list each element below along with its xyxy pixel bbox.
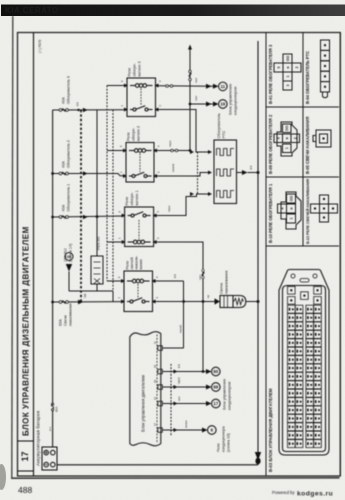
wire to circle 19	[189, 48, 213, 151]
B-03 terminal arrow	[255, 452, 261, 461]
fusible link box 30A	[91, 256, 103, 284]
battery	[42, 447, 57, 470]
glow plug Свеча накаливания	[220, 296, 246, 308]
ECU connector B-03 outline	[279, 270, 329, 456]
PTC heater box	[214, 140, 237, 204]
fuse row 40A Обогреватель 3	[53, 109, 127, 112]
dashed harness bus x83	[80, 110, 82, 302]
wire R3 coil to circle 11	[159, 85, 214, 87]
R3 pin arrows	[124, 84, 159, 112]
dashed connector column x107	[106, 86, 108, 282]
corner smudge	[0, 464, 6, 490]
node circle 11	[219, 82, 228, 91]
relay R3 Реле обогревателя 3	[127, 78, 156, 117]
connector B-09 pinout	[274, 122, 300, 156]
wire 15A INJ to link box	[69, 272, 113, 302]
bus x258 to B-03	[257, 41, 259, 465]
connector B-04 pinout strip	[321, 40, 330, 98]
wire R1 switch to PTC row3	[157, 194, 208, 216]
connector B-22 pinout	[311, 195, 338, 222]
PTC output to bus	[237, 172, 243, 174]
title box БЛОК УПРАВЛЕНИЯ ДИЗЕЛЬНЫМ ДВИГАТЕЛЕМ	[18, 440, 34, 442]
relay pin numbers	[120, 80, 162, 107]
wire RG coil to down-tap	[156, 280, 184, 282]
connector B-05 pinout	[313, 130, 331, 147]
wire R3 switch to PTC row1	[159, 110, 209, 153]
title column divider	[33, 33, 35, 477]
node circle 19	[219, 100, 228, 109]
ECU wire to circle 17	[162, 403, 206, 405]
wire R2 coil to x192 node	[157, 149, 190, 151]
connector B-01 pinout	[274, 54, 301, 90]
ECU pins	[158, 346, 163, 433]
wire battery bottom to B-03 bus	[57, 464, 258, 466]
ECU box Блок управления двигателем	[130, 332, 161, 446]
fuse row 40A Обогреватель 2	[53, 172, 126, 176]
ECU wire to circle 69	[162, 386, 206, 388]
relay R2 Реле обогревателя 2	[126, 143, 154, 183]
wire R2 switch to PTC row2	[157, 173, 208, 177]
page tab 17	[18, 470, 34, 472]
wire battery positive bus	[52, 110, 54, 447]
fuse row 40A Обогреватель 1	[53, 216, 125, 219]
wire R1 coil down to circle 60 wire	[157, 242, 203, 372]
wire RG switch to glow plug	[156, 301, 215, 303]
ECU pin grid	[288, 287, 322, 448]
dashed connector column at ECU outputs	[170, 364, 172, 436]
dashed connector column x113	[112, 110, 114, 302]
ECU wire to circle 60	[162, 371, 206, 373]
ECU wire to glow tap	[162, 347, 183, 349]
fuse row 60A Свечи накаливания	[53, 301, 124, 304]
connector table grid	[266, 33, 340, 477]
relay RG Реле свечей накаливания	[124, 271, 153, 312]
outer page border	[12, 16, 13, 479]
fuse 80A	[51, 403, 53, 411]
PTC pin arrows and dashed connector	[190, 150, 212, 196]
ECU wire to circle 6	[162, 429, 202, 431]
ECU connector top screws and slot	[291, 274, 317, 282]
connector B-10 pinout	[278, 192, 302, 229]
R3 coil feed wire	[107, 85, 124, 87]
relay R1 Реле обогревателя 1 (flipped)	[125, 207, 154, 247]
